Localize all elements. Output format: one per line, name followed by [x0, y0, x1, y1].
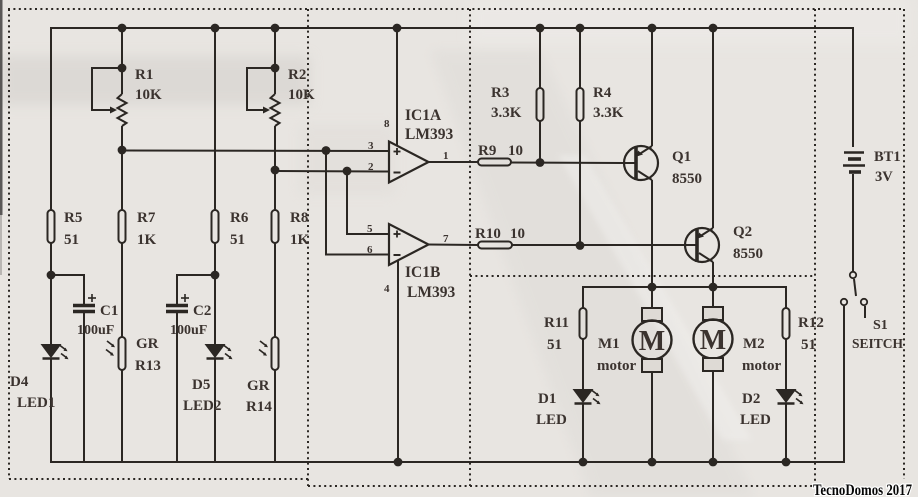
value label D1 LED [536, 391, 567, 428]
svg-text:LED2: LED2 [183, 398, 221, 414]
battery BT1 [843, 153, 865, 272]
resistor R6 [211, 28, 220, 345]
resistor R10 [478, 242, 512, 249]
block boundary dashed motor-box top [470, 275, 815, 277]
svg-text:motor: motor [742, 358, 781, 374]
pin 2 IC1A [368, 161, 374, 173]
junction top rail at R3 [536, 24, 545, 33]
op-amp IC1A [389, 142, 429, 183]
pin 5 IC1B [367, 223, 373, 235]
svg-text:R2: R2 [288, 67, 306, 83]
svg-text:10: 10 [508, 143, 523, 159]
photoresistor GR R13 [106, 337, 126, 462]
value label D5 LED2 [183, 377, 221, 414]
capacitor C2 [166, 275, 215, 462]
junction R1 top loop [118, 64, 127, 73]
svg-text:3.3K: 3.3K [593, 105, 624, 121]
svg-text:M1: M1 [598, 336, 620, 352]
motor M2 letter [700, 325, 726, 356]
wire R1 wiper node to IC1A plus input [122, 146, 389, 155]
wire V+ to IC1A pin8 [396, 28, 398, 146]
svg-text:D2: D2 [742, 391, 760, 407]
svg-text:10K: 10K [288, 87, 315, 103]
svg-text:R7: R7 [137, 210, 156, 226]
op-amp IC1B [389, 224, 429, 265]
wire IC1B output [429, 244, 479, 247]
value label D2 LED [740, 391, 771, 428]
svg-text:Q2: Q2 [733, 224, 752, 240]
junction R6 C2 node [211, 271, 220, 280]
svg-text:D1: D1 [538, 391, 556, 407]
switch S1 [841, 272, 867, 462]
svg-text:51: 51 [801, 337, 816, 353]
junction cross-link tap pin3 net [322, 146, 331, 155]
junction bottom rail at M2 [709, 458, 718, 467]
svg-text:BT1: BT1 [874, 149, 901, 165]
svg-text:8550: 8550 [672, 171, 702, 187]
svg-text:IC1A: IC1A [405, 107, 442, 124]
junction Q1 collector M1 [648, 283, 657, 292]
svg-text:10K: 10K [135, 87, 162, 103]
junction bottom rail at IC supply [394, 458, 403, 467]
LED D2 [778, 390, 804, 462]
motor M1 [633, 287, 672, 462]
value label GR R14 [246, 378, 272, 415]
svg-text:3.3K: 3.3K [491, 105, 522, 121]
value label D4 LED1 [10, 374, 55, 411]
junction top rail at R1 column [118, 24, 127, 33]
resistor R4 [577, 28, 584, 246]
LED D1 [575, 390, 601, 462]
svg-text:51: 51 [64, 232, 79, 248]
junction cross-link tap pin2 net [343, 167, 352, 176]
svg-text:R13: R13 [135, 358, 161, 374]
value label R11 51 [544, 315, 569, 353]
value label IC1B LM393 [405, 264, 455, 301]
resistor R11 [580, 308, 587, 390]
svg-text:TecnoDomos 2017: TecnoDomos 2017 [813, 482, 912, 497]
value label R6 51 [230, 210, 249, 248]
svg-text:S1: S1 [873, 318, 888, 333]
motor M2 [694, 287, 733, 462]
svg-text:51: 51 [230, 232, 245, 248]
pin 4 IC1B ground [384, 283, 390, 295]
svg-text:D5: D5 [192, 377, 210, 393]
svg-text:100uF: 100uF [77, 323, 114, 338]
wire cross-link to IC1B minus input [326, 151, 389, 255]
svg-text:R11: R11 [544, 315, 569, 331]
block boundary dashed top [8, 8, 904, 10]
value label R7 1K [137, 210, 157, 248]
svg-text:IC1B: IC1B [405, 264, 440, 281]
svg-text:M2: M2 [743, 336, 765, 352]
svg-text:8550: 8550 [733, 246, 763, 262]
svg-text:5: 5 [367, 223, 373, 235]
node B R2 wiper net [271, 166, 280, 175]
pin 6 IC1B [367, 244, 373, 256]
value label R5 51 [64, 210, 82, 248]
svg-text:motor: motor [597, 358, 636, 374]
svg-text:SEITCH: SEITCH [852, 336, 904, 351]
wire bottom rail [51, 461, 844, 463]
svg-text:4: 4 [384, 283, 390, 295]
resistor R8 [272, 210, 279, 337]
wire top supply rail [51, 28, 853, 210]
resistor R7 [119, 210, 126, 337]
svg-text:LED: LED [740, 412, 771, 428]
svg-text:C2: C2 [193, 303, 211, 319]
svg-text:R10: R10 [475, 226, 501, 242]
svg-text:6: 6 [367, 244, 373, 256]
value label C2 100uF [170, 303, 211, 338]
potentiometer R1 [92, 28, 127, 210]
pin 8 IC1A supply [384, 118, 390, 130]
svg-text:100uF: 100uF [170, 323, 207, 338]
svg-text:3V: 3V [875, 169, 893, 185]
svg-text:LM393: LM393 [405, 126, 453, 143]
block boundary dashed right [903, 9, 905, 479]
junction top rail at R6 column [211, 24, 220, 33]
svg-text:1K: 1K [137, 232, 157, 248]
svg-text:R5: R5 [64, 210, 82, 226]
watermark TecnoDomos 2017 [813, 482, 912, 497]
value label R3 3.3K [491, 85, 522, 121]
junction bottom rail at M1 [648, 458, 657, 467]
value label R4 3.3K [593, 85, 624, 121]
wire IC1B pin4 to bottom rail [397, 261, 399, 463]
svg-text:R4: R4 [593, 85, 612, 101]
svg-text:1K: 1K [290, 232, 310, 248]
value label R1 10K [135, 67, 162, 103]
wire R2 wiper node to IC1A minus input [275, 167, 389, 176]
transistor Q2 [685, 28, 719, 287]
svg-text:10: 10 [510, 226, 525, 242]
svg-text:D4: D4 [10, 374, 29, 390]
wire IC1A output [429, 161, 479, 163]
resistor R12 [783, 308, 790, 390]
value label S1 SEITCH [852, 318, 904, 351]
wire cross-link to IC1B plus input [347, 171, 389, 234]
pin 3 IC1A [368, 140, 374, 152]
junction bottom rail at R11 [579, 458, 588, 467]
block boundary dashed vertical x470 [469, 9, 471, 486]
svg-text:2: 2 [368, 161, 374, 173]
svg-text:M: M [639, 326, 665, 357]
svg-text:C1: C1 [100, 303, 118, 319]
junction top rail at R2 column [271, 24, 280, 33]
node A R1 wiper net [118, 146, 127, 155]
value label Q1 8550 [672, 149, 702, 187]
junction R5 C1 node [47, 271, 56, 280]
value label R2 10K [288, 67, 315, 103]
block boundary dashed vertical x308 [307, 9, 309, 486]
junction top rail at Q1 emitter [648, 24, 657, 33]
capacitor C1 [51, 275, 96, 462]
svg-text:8: 8 [384, 118, 390, 130]
svg-text:LM393: LM393 [407, 284, 455, 301]
svg-text:LED1: LED1 [17, 395, 55, 411]
wire R9 to Q1 base [511, 158, 624, 167]
svg-text:R6: R6 [230, 210, 249, 226]
block boundary dashed bottom-left [9, 478, 308, 480]
value label R8 1K [290, 210, 310, 248]
pin 1 IC1A [443, 150, 449, 162]
svg-text:R14: R14 [246, 399, 272, 415]
value label IC1A LM393 [405, 107, 453, 143]
value label BT1 3V [874, 149, 901, 185]
wire R10 to Q2 base [512, 241, 685, 250]
value label M2 motor [742, 336, 781, 374]
svg-text:LED: LED [536, 412, 567, 428]
svg-text:R8: R8 [290, 210, 308, 226]
wire motor feed rail [583, 283, 786, 308]
block boundary dashed left [8, 9, 10, 479]
svg-text:1: 1 [443, 150, 449, 162]
junction top rail at Q2 emitter [709, 24, 718, 33]
value label R10 10 [475, 226, 525, 242]
junction R3 Q1-base node [536, 158, 545, 167]
value label GR R13 [135, 336, 161, 374]
svg-text:GR: GR [136, 336, 159, 352]
junction bottom rail at R12 [782, 458, 791, 467]
LED D5 [207, 345, 233, 462]
svg-text:Q1: Q1 [672, 149, 691, 165]
LED D4 [43, 345, 69, 462]
svg-text:R3: R3 [491, 85, 509, 101]
resistor R9 [478, 159, 511, 166]
motor M1 letter [639, 326, 665, 357]
block boundary dashed bottom-middle [308, 485, 815, 487]
pin 7 IC1B [443, 233, 449, 245]
svg-text:GR: GR [247, 378, 270, 394]
value label R12 51 [798, 315, 824, 353]
svg-text:R12: R12 [798, 315, 824, 331]
transistor Q1 [624, 28, 658, 287]
value label R9 10 [478, 143, 523, 159]
junction R2 top loop [271, 64, 280, 73]
svg-text:M: M [700, 325, 726, 356]
junction R4 Q2-base node [576, 241, 585, 250]
junction top rail at IC supply [393, 24, 402, 33]
svg-text:R1: R1 [135, 67, 153, 83]
resistor R5 [47, 210, 56, 345]
svg-text:R9: R9 [478, 143, 496, 159]
value label C1 100uF [77, 303, 118, 338]
junction top rail at R4 [576, 24, 585, 33]
svg-text:7: 7 [443, 233, 449, 245]
resistor R3 [537, 28, 544, 163]
svg-text:51: 51 [547, 337, 562, 353]
value label M1 motor [597, 336, 636, 374]
potentiometer R2 [247, 28, 280, 210]
photoresistor GR R14 [259, 337, 279, 462]
value label Q2 8550 [733, 224, 763, 262]
block boundary dashed vertical x815 [814, 9, 816, 485]
svg-text:3: 3 [368, 140, 374, 152]
junction Q2 collector M2 [709, 283, 718, 292]
